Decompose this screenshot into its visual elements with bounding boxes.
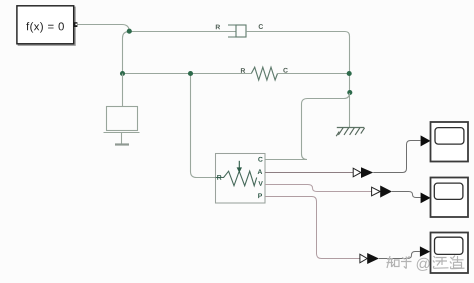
junction dot node A xyxy=(127,29,132,34)
watermark at-sign xyxy=(417,258,430,271)
PS-Simulink converter 3 xyxy=(360,253,379,264)
junction dot node C on ground wire xyxy=(347,71,352,76)
wire converter 2 to scope 2 xyxy=(392,192,421,198)
node E junction with wire down from node B xyxy=(191,74,216,178)
junction dot node E xyxy=(188,71,193,76)
wire V port to converter 2 xyxy=(265,185,372,192)
PS-Simulink converter 1 xyxy=(353,167,373,178)
wire P port to converter 3 xyxy=(265,197,360,259)
output port of U1 xyxy=(74,22,78,27)
label R capacitor left port xyxy=(216,25,220,30)
PS-Simulink converter 2 xyxy=(372,186,392,198)
ground symbol xyxy=(336,128,364,137)
label C potentiometer port xyxy=(258,157,262,162)
label R potentiometer left port xyxy=(217,175,221,180)
solver block U1 f(x)=0 xyxy=(17,6,75,45)
label A potentiometer port xyxy=(258,169,263,174)
wire converter 1 to scope 1 xyxy=(373,141,420,173)
scope 2 input arrow xyxy=(421,193,431,204)
potentiometer block body xyxy=(216,154,266,204)
label P potentiometer port xyxy=(258,193,262,198)
scope 3 xyxy=(431,233,469,274)
potentiometer internal resistor xyxy=(216,171,257,186)
label C capacitor right port xyxy=(259,24,263,29)
label C resistor right port xyxy=(283,68,287,73)
capacitor C1 xyxy=(228,25,246,37)
wire converter 3 to scope 3 xyxy=(379,252,420,259)
wire node A to capacitor left xyxy=(129,31,236,33)
junction dot node B xyxy=(120,71,125,76)
scope 3 input arrow xyxy=(420,246,430,256)
watermark xyxy=(387,256,465,269)
wire A port to converter 1 xyxy=(265,172,353,174)
wire U1 output to node A xyxy=(78,25,129,32)
scope 2 xyxy=(431,178,469,218)
scope 1 input arrow xyxy=(421,135,431,146)
wire resistor to ground node xyxy=(278,73,350,75)
wire node D to potentiometer C port xyxy=(265,93,350,160)
electrical reference block xyxy=(104,107,140,145)
wire capacitor right to ground node xyxy=(246,32,349,128)
label R resistor left port xyxy=(241,68,245,73)
potentiometer wiper arrow xyxy=(237,161,242,173)
wire node B down to electrical reference xyxy=(122,74,124,107)
wire node B to resistor xyxy=(123,73,252,75)
junction dot node D on ground wire xyxy=(347,90,352,95)
scope 1 xyxy=(431,122,469,162)
resistor R1 xyxy=(251,67,277,80)
wire node A down to node B xyxy=(123,32,130,74)
label V potentiometer port xyxy=(258,181,262,186)
